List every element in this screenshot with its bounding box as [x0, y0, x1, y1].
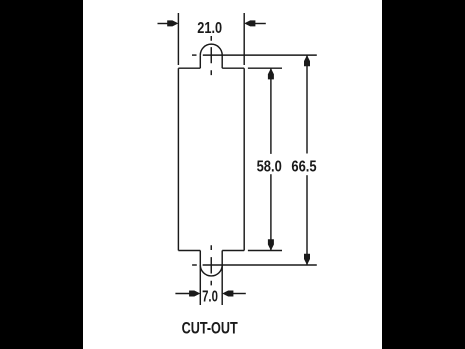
svg-text:58.0: 58.0	[257, 158, 282, 175]
66.5 dimension top reference line	[203, 54, 317, 56]
7.0 right arrowhead (points left)	[222, 291, 233, 297]
21.0 dimension left arrow shaft	[158, 23, 171, 25]
cut-out outline: bottom edge left segment	[178, 250, 200, 252]
bottom slot semicircle	[200, 265, 222, 276]
top tab right side	[221, 55, 223, 68]
66.5 bottom arrowhead (points down)	[304, 254, 310, 265]
cut-out outline: bottom edge right segment	[222, 250, 244, 252]
21.0 dimension extension line left	[177, 13, 179, 65]
svg-text:66.5: 66.5	[291, 158, 317, 175]
right black band	[382, 0, 465, 349]
bottom slot right side / 7.0 extension line right	[221, 251, 223, 306]
58.0 dimension bottom tick line	[248, 250, 282, 252]
66.5 top arrowhead (points up)	[304, 55, 310, 66]
58.0 top arrowhead (points up)	[268, 68, 274, 79]
21.0 right arrowhead (points left)	[244, 20, 255, 26]
7.0 dimension left arrow shaft	[175, 293, 192, 295]
svg-text:7.0: 7.0	[202, 288, 218, 305]
cut-out outline: main rectangle right edge	[243, 68, 245, 250]
bottom slot left side / 7.0 extension line left	[199, 251, 201, 306]
cut-out outline: main rectangle left edge	[177, 68, 179, 250]
21.0 left arrowhead (points right)	[167, 20, 178, 26]
bottom slot horizontal centerline dash	[192, 264, 197, 266]
cut-out outline: top edge left segment	[178, 67, 200, 69]
66.5 dimension line upper segment	[306, 55, 308, 153]
7.0 dimension right arrow shaft	[230, 293, 246, 295]
58.0 dimension line upper segment	[270, 68, 272, 154]
21.0 dimension right arrow shaft	[252, 23, 266, 25]
66.5 dimension line lower segment	[306, 175, 308, 265]
svg-text:21.0: 21.0	[197, 20, 222, 37]
bottom slot vertical centerline (dashed)	[210, 245, 212, 285]
cut-out outline: top edge right segment	[222, 67, 244, 69]
top bump vertical centerline (dashed)	[210, 36, 212, 75]
left black band	[0, 0, 83, 349]
21.0 dimension extension line right	[243, 13, 245, 65]
7.0 left arrowhead (points right)	[189, 291, 200, 297]
svg-text:CUT-OUT: CUT-OUT	[182, 318, 239, 337]
58.0 dimension line lower segment	[270, 174, 272, 250]
58.0 dimension top tick line	[248, 67, 282, 69]
top tab semicircle	[200, 44, 222, 55]
top tab left side	[199, 55, 201, 68]
66.5 dimension bottom reference line	[203, 264, 317, 266]
58.0 bottom arrowhead (points down)	[268, 239, 274, 250]
top bump horizontal centerline dash	[192, 54, 197, 56]
